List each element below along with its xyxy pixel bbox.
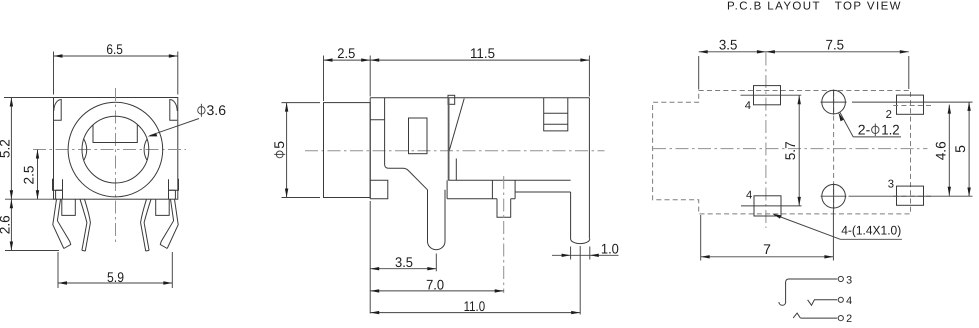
inner diagonal [449, 99, 464, 152]
label 4-(1.4X1.0) with leader [772, 214, 902, 240]
flange left edge [369, 98, 371, 199]
dimension 3.5 pcb [699, 37, 909, 90]
right side tab upper [169, 179, 179, 199]
dimension 7.5 pcb [766, 37, 909, 54]
dimension 2.6 left [0, 199, 59, 250]
dimension 7 pcb [701, 210, 834, 261]
sleeve contact J [779, 279, 837, 305]
pad 2 cross line [893, 105, 933, 107]
pad 2 [897, 95, 924, 114]
svg-text:2: 2 [886, 109, 892, 121]
terminal circle 2 [838, 316, 843, 321]
dimension 5 pcb [952, 102, 971, 197]
right leg [571, 192, 590, 244]
left pad column centerline [765, 53, 767, 229]
rectangular window inside hole [93, 125, 137, 143]
left side tab lower [56, 190, 63, 199]
hole top 1.2 [822, 90, 846, 114]
svg-text:5.7: 5.7 [782, 141, 798, 160]
body bottom line [448, 179, 570, 181]
dimension 2.5 left [20, 150, 39, 200]
stacked terminal box top right [544, 98, 568, 131]
pad 4 top [754, 86, 781, 105]
top notch [448, 95, 455, 104]
bottom tab right [156, 199, 170, 215]
svg-text:6.5: 6.5 [106, 41, 123, 57]
svg-text:2.5: 2.5 [337, 45, 355, 61]
svg-text:4-(1.4X1.0): 4-(1.4X1.0) [841, 223, 901, 237]
body top edge [370, 97, 589, 99]
dashed footprint outline [653, 91, 911, 214]
label 2-phi1.2 with leader [838, 112, 901, 137]
contact 4 v-spring [808, 300, 838, 306]
outer left leg [53, 199, 71, 248]
inner circle (jack hole phi3.6) [82, 116, 149, 183]
outer circle (barrel front) [68, 102, 163, 197]
svg-text:3.5: 3.5 [719, 37, 738, 53]
dimension 6.5 top [54, 41, 178, 94]
inner left leg [80, 199, 90, 251]
body right edge [588, 98, 590, 239]
bottom tab left [62, 199, 76, 215]
right side tab lower [169, 190, 176, 199]
pad 4 top cross line [741, 94, 802, 96]
dimension 5.2 left [0, 98, 54, 200]
dimension phi5 left [271, 103, 320, 198]
center peg [492, 180, 515, 217]
barrel (sleeve) [324, 103, 371, 198]
svg-text:3: 3 [846, 274, 852, 286]
dimension 5.7 pcb [782, 95, 801, 206]
svg-text:2-: 2- [858, 122, 871, 138]
shelf and diagonal into front leg [389, 168, 428, 190]
side contact lens left [84, 139, 87, 160]
side horizontal centerline [305, 150, 605, 152]
bottom plate left of peg [447, 180, 497, 199]
svg-text:2: 2 [846, 313, 852, 325]
dimension 7.0 side bottom [370, 277, 504, 293]
dimension 11.0 side bottom [370, 246, 580, 315]
svg-text:4: 4 [745, 100, 751, 112]
flange right edge with seam [370, 98, 388, 169]
svg-text:7.0: 7.0 [426, 277, 444, 293]
terminal circle 3 [838, 276, 843, 281]
svg-text:1.0: 1.0 [601, 240, 619, 256]
svg-text:5.9: 5.9 [107, 269, 124, 285]
left side tab upper [53, 179, 63, 199]
inner right leg [141, 199, 151, 251]
dimension 2.5 side top [324, 45, 590, 101]
side contact lens right [144, 139, 147, 160]
divider line [448, 98, 450, 181]
svg-text:5.2: 5.2 [0, 139, 12, 158]
pcb horizontal centerline [653, 148, 928, 150]
flange foot block [370, 180, 388, 199]
svg-text:2.6: 2.6 [0, 215, 13, 234]
front vertical centerline [115, 88, 117, 243]
corner notch right [170, 99, 177, 120]
svg-text:7.5: 7.5 [826, 37, 845, 53]
corner notch left [54, 99, 61, 120]
svg-text:7: 7 [763, 241, 771, 257]
svg-text:P.C.B LAYOUT TOP VIEW: P.C.B LAYOUT TOP VIEW [727, 1, 902, 13]
dimension 1.0 right leg [552, 240, 619, 259]
peg centerline [503, 176, 505, 293]
svg-text:3.6: 3.6 [207, 102, 227, 118]
front body outline [54, 98, 178, 200]
dimension 3.5 side bottom [370, 201, 436, 314]
svg-text:5: 5 [952, 145, 968, 153]
pad 3 cross line [893, 195, 933, 197]
hole bottom 1.2 [822, 184, 846, 208]
svg-text:3: 3 [888, 179, 894, 191]
dimension 11.5 side top [370, 45, 589, 62]
inner vertical [455, 159, 457, 181]
svg-text:2.5: 2.5 [20, 165, 36, 184]
dimension 5.9 bottom [58, 252, 172, 288]
front horizontal centerline [33, 149, 186, 151]
pad 3 [897, 186, 924, 205]
terminal circle 4 [838, 297, 843, 302]
contact 2 tip spring [793, 313, 837, 318]
svg-text:4: 4 [746, 189, 752, 201]
contact window [409, 118, 428, 154]
pad 4 bottom [754, 196, 781, 216]
dimension 4.6 pcb [849, 102, 973, 196]
svg-text:11.5: 11.5 [470, 45, 495, 61]
svg-text:5: 5 [271, 141, 287, 149]
outer right leg [160, 199, 178, 248]
svg-text:4: 4 [846, 295, 852, 307]
front leg [428, 190, 446, 250]
label phi3.6 with leader [148, 102, 227, 137]
svg-text:11.0: 11.0 [464, 298, 486, 314]
bottom plate right of peg [511, 192, 571, 199]
svg-text:1.2: 1.2 [881, 122, 900, 138]
svg-text:4.6: 4.6 [932, 141, 948, 160]
pad 4 bottom cross line [741, 205, 802, 207]
svg-text:3.5: 3.5 [395, 254, 413, 270]
hole column dashed line [833, 91, 835, 214]
